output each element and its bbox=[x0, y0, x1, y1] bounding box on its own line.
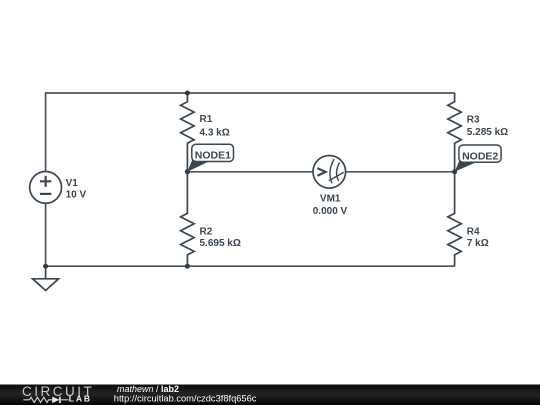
ground bbox=[33, 266, 59, 290]
footer text author / title bbox=[117, 384, 179, 394]
junction dot at top rail / R1 bbox=[185, 91, 190, 96]
resistor R1 bbox=[181, 93, 195, 172]
wire left vertical upper (top rail to V1 plus terminal) bbox=[45, 92, 47, 172]
svg-text:NODE2: NODE2 bbox=[462, 150, 498, 162]
label R4 value 7 kΩ bbox=[467, 226, 489, 249]
svg-text:5.695 kΩ: 5.695 kΩ bbox=[200, 238, 241, 249]
svg-text:VM1: VM1 bbox=[320, 194, 341, 205]
wire middle horizontal NODE1 to voltmeter left terminal bbox=[187, 171, 313, 173]
svg-text:R4: R4 bbox=[467, 226, 480, 237]
CircuitLab logo wordmark CIRCUIT bbox=[22, 384, 94, 399]
resistor R2 bbox=[181, 172, 195, 266]
svg-text:LAB: LAB bbox=[69, 394, 92, 404]
wire middle horizontal voltmeter right terminal to NODE2 bbox=[346, 171, 455, 173]
junction dot at NODE1 bbox=[185, 169, 190, 174]
resistor R4 bbox=[448, 172, 462, 266]
label V1 value 10 V bbox=[66, 178, 87, 200]
svg-text:10 V: 10 V bbox=[66, 189, 87, 200]
svg-text:http://circuitlab.com/czdc3f8f: http://circuitlab.com/czdc3f8fq656c bbox=[114, 393, 257, 403]
svg-text:R3: R3 bbox=[467, 115, 480, 126]
wire bottom horizontal bbox=[46, 265, 455, 267]
svg-text:NODE1: NODE1 bbox=[195, 150, 231, 162]
wire top horizontal bbox=[46, 92, 455, 94]
label R1 value 4.3 kΩ bbox=[200, 114, 230, 138]
svg-text:R1: R1 bbox=[200, 114, 213, 125]
svg-text:5.285 kΩ: 5.285 kΩ bbox=[467, 127, 508, 138]
resistor R3 bbox=[448, 93, 462, 172]
junction dot at NODE2 bbox=[452, 169, 457, 174]
wire left vertical lower (V1 minus terminal to bottom rail) bbox=[45, 203, 47, 266]
CircuitLab logo resistor zigzag and diode bbox=[23, 397, 68, 404]
svg-text:4.3 kΩ: 4.3 kΩ bbox=[200, 127, 230, 138]
voltmeter VM1 bbox=[313, 156, 346, 189]
footer text url bbox=[114, 393, 257, 403]
svg-text:R2: R2 bbox=[200, 226, 213, 237]
voltage source V1 bbox=[30, 172, 62, 204]
footer bar bbox=[0, 385, 540, 405]
label VM1 value 0.000 V bbox=[313, 194, 348, 217]
junction dot at bottom rail / R2 bbox=[185, 264, 190, 269]
node NODE2 flag bbox=[455, 145, 502, 172]
svg-text:0.000 V: 0.000 V bbox=[313, 206, 348, 217]
junction dot at bottom rail / ground bbox=[43, 264, 48, 269]
node NODE1 flag bbox=[187, 144, 233, 172]
svg-text:7 kΩ: 7 kΩ bbox=[467, 238, 489, 249]
label R2 value 5.695 kΩ bbox=[200, 226, 241, 249]
svg-text:V1: V1 bbox=[66, 178, 79, 189]
CircuitLab logo wordmark LAB bbox=[69, 394, 92, 404]
label R3 value 5.285 kΩ bbox=[467, 115, 508, 138]
